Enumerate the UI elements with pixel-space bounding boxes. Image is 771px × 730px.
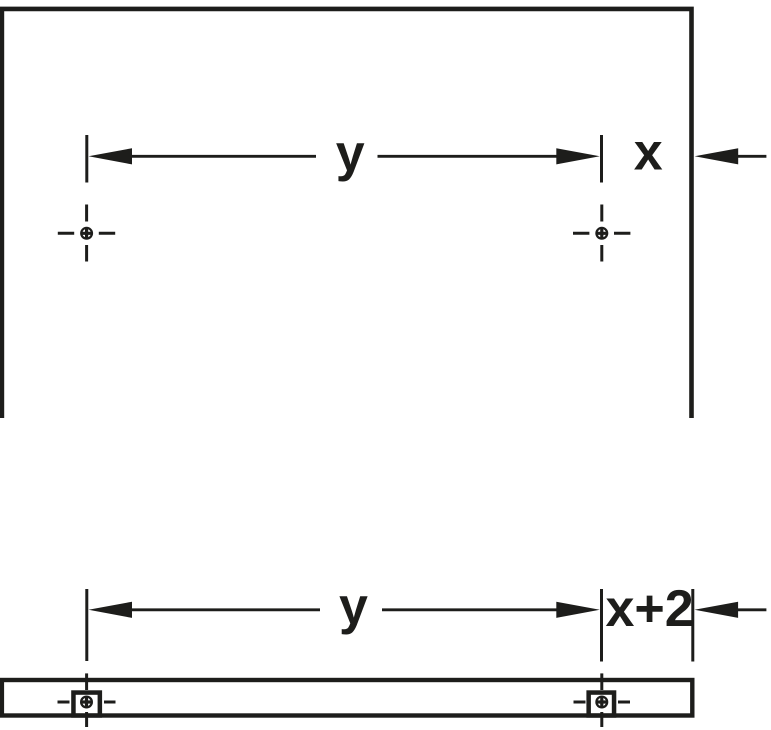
dimension y top: left extension line: [85, 135, 88, 183]
extension line at handle end bottom right: [691, 589, 694, 662]
dimension y bottom: right extension line: [600, 589, 603, 662]
screw hole top right: crosshair dashes: [573, 205, 630, 262]
dimension y bottom: right line segment: [382, 608, 590, 611]
screw hole top left: screw head: [80, 227, 93, 240]
handle screw left: crosshair dashes: [58, 673, 116, 727]
arrow to door edge top right: line: [735, 155, 766, 158]
dimension y top: right extension line: [600, 135, 603, 183]
arrow to door edge top right: arrowhead: [695, 148, 739, 164]
handle screw left: screw head: [80, 696, 93, 709]
dimension y top: right line segment: [378, 155, 591, 158]
mounting block right: [589, 693, 614, 716]
dimension y top: right arrowhead: [556, 148, 600, 164]
panel (door front, open bottom): [2, 9, 692, 418]
dimension y top: left line segment: [100, 155, 316, 158]
handle bar: [2, 680, 692, 716]
handle screw right: screw head: [595, 696, 608, 709]
dimension y bottom: left line segment: [100, 608, 320, 611]
screw hole top left: crosshair dashes: [58, 205, 115, 262]
dimension y top: left arrowhead: [89, 148, 133, 164]
svg-text:y: y: [339, 577, 368, 635]
svg-text:y: y: [336, 124, 365, 182]
dimension y bottom: right arrowhead: [556, 602, 600, 618]
arrow to handle end bottom right: line: [735, 608, 766, 611]
dimension y bottom: left extension line: [85, 589, 88, 661]
dimension y bottom: left arrowhead: [89, 602, 133, 618]
screw hole top right: screw head: [595, 227, 608, 240]
svg-text:x: x: [634, 124, 663, 182]
arrow to handle end bottom right: arrowhead: [695, 602, 739, 618]
svg-text:x+2: x+2: [605, 580, 693, 638]
handle screw right: crosshair dashes: [574, 673, 631, 727]
mounting block left: [73, 693, 99, 716]
